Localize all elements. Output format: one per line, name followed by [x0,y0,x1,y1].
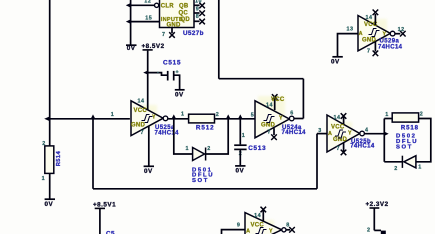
power +8.5V1 [93,202,116,209]
wire U527b QB pin 10 [194,4,200,6]
no-connect X U524b output [289,227,295,233]
svg-text:4: 4 [365,128,369,134]
svg-text:14: 14 [334,115,341,121]
label U525b [350,139,375,150]
node junction arrow C513 tap [238,114,243,119]
wire U527b GND pin 7 [171,28,173,34]
wire C515 left [148,73,167,76]
capacitor C515 [157,70,179,81]
svg-text:GND: GND [131,123,146,129]
wire +2.3V2 down [373,209,375,231]
inverter U524b bottom partial [245,213,286,240]
svg-text:3: 3 [318,128,322,134]
ground 0V under R514 [45,199,56,208]
svg-text:0V: 0V [236,168,245,175]
no-connect X U525b GND [341,150,347,156]
node junction arrow bottom branch [91,114,96,119]
svg-text:2: 2 [420,111,424,117]
svg-text:1: 1 [418,164,422,170]
svg-text:74HC14: 74HC14 [350,144,375,150]
node junction arrow C515 tap [143,70,148,74]
wire R518 vertical left [383,119,385,162]
inverter U525a [131,101,168,136]
svg-text:9: 9 [196,7,200,13]
svg-text:14: 14 [266,102,273,108]
power +2.3V2 [366,201,389,208]
svg-text:2: 2 [367,228,371,234]
wire U525a GND pin 7 [148,126,150,166]
svg-text:Y: Y [279,116,283,122]
wire D502 left [384,161,402,163]
svg-text:+2.3V2: +2.3V2 [366,201,389,208]
svg-text:1: 1 [42,176,46,182]
wire R512 to U524a input [215,118,256,120]
svg-text:A: A [246,228,250,234]
inverter U529a [358,16,395,51]
svg-text:Y: Y [269,228,273,234]
no-connect X U524a GND [271,134,277,140]
svg-text:14: 14 [254,213,261,219]
no-connect X U529a output [400,31,406,37]
wire U524b output [286,229,290,231]
svg-text:0V: 0V [175,91,184,98]
svg-text:+8.5V2: +8.5V2 [142,43,165,50]
svg-text:VCC: VCC [134,108,148,114]
node junction arrow D501 right [226,114,231,119]
svg-text:13: 13 [347,26,354,32]
svg-text:8: 8 [286,222,290,228]
node junction arrow main wire [44,116,50,121]
node junction arrow pin15 [126,19,131,24]
svg-text:GND: GND [261,122,276,128]
wire U529a GND stub [374,41,376,51]
power +8.5V2 [142,43,165,50]
svg-text:1: 1 [186,146,190,152]
wire U527b INPUTB pin 15 [131,21,160,23]
no-connect X U529a GND [373,51,379,57]
wire U524b VCC stub [262,211,264,222]
svg-text:0V: 0V [45,201,54,208]
svg-text:Y: Y [383,31,387,37]
node junction arrow R518 tap [384,132,389,136]
svg-text:7: 7 [337,146,341,152]
wire U529a VCC stub [374,14,376,25]
svg-text:5: 5 [251,113,255,119]
resistor R514 [45,146,62,174]
svg-text:A: A [328,131,332,137]
wire U524a output [294,118,303,120]
wire bus left U527b [130,0,132,45]
capacitor C513 [234,145,246,149]
wire U525b VCC stub [343,116,345,125]
ground 0V under U525a [144,166,154,175]
svg-text:0V: 0V [331,59,340,66]
wire U524a VCC stub [274,98,276,111]
svg-text:CLR: CLR [161,3,174,9]
svg-text:0V: 0V [127,45,136,52]
no-connect X pin 9 [199,10,205,16]
svg-text:R514: R514 [56,150,62,166]
svg-text:10: 10 [195,0,202,5]
wire main horizontal to U525a input [50,118,130,120]
svg-text:Y: Y [152,114,156,120]
wire top feedback vertical [218,0,220,79]
svg-text:1: 1 [242,133,246,139]
svg-text:C515: C515 [163,59,181,66]
svg-text:7: 7 [162,32,166,38]
diode D502 [402,156,416,168]
wire U525b input [317,133,327,135]
wire U524a GND stub [273,128,275,135]
svg-text:2: 2 [42,141,46,147]
wire C515 right [174,75,179,89]
svg-text:14: 14 [138,98,145,104]
svg-text:R518: R518 [401,126,419,132]
svg-text:QC: QC [179,10,189,16]
svg-text:A: A [359,31,363,37]
svg-text:U527b: U527b [183,30,204,37]
svg-text:14: 14 [366,15,373,21]
wire R514 bottom [49,173,51,198]
svg-text:7: 7 [141,130,145,136]
inverter U525b [327,115,364,152]
svg-text:2: 2 [216,112,220,118]
diode D501 [193,148,206,161]
wire D501 left drop [174,119,193,154]
wire U525b output [364,133,384,135]
wire C513 top [239,119,241,145]
node junction arrow D501 left [171,114,176,119]
wire U529a output [395,33,400,35]
label D502 [396,134,418,151]
wire U524b input pin 9 [222,230,246,234]
wire to resistor bottom right [374,229,381,231]
svg-text:74HC14: 74HC14 [378,44,403,50]
no-connect X U524a VCC [272,94,278,100]
wire U529a input [338,34,359,57]
label U529a [378,39,403,51]
label U525a [155,125,180,137]
resistor R518 [392,113,418,122]
svg-text:Y: Y [348,131,352,137]
halo tints [132,1,387,234]
resistor R512 [189,114,215,123]
svg-text:C5: C5 [106,231,115,235]
node junction arrow pin12 [126,3,131,8]
svg-text:7: 7 [268,130,272,136]
wire R518 right down [416,119,431,162]
no-connect X U525b VCC [341,113,347,119]
no-connect X pin 8 [199,19,205,25]
wire up to U525b input [316,134,318,189]
svg-text:7: 7 [367,49,371,55]
svg-text:2: 2 [207,146,211,152]
resistor partial bottom right [381,231,386,235]
svg-text:1: 1 [181,112,185,118]
no-connect X U524b VCC [261,207,267,213]
wire C513 bottom [239,150,241,165]
wire +8.5V2 down to U525a VCC [147,51,149,110]
svg-text:QB: QB [179,3,189,9]
svg-text:9: 9 [237,222,241,228]
svg-text:6: 6 [290,110,294,116]
label D501 [192,167,214,184]
svg-text:0V: 0V [144,168,153,175]
no-connect X pin 7 [169,32,175,38]
wire +8.5V1 down [99,209,101,234]
no-connect X pin 10 [199,3,205,9]
svg-text:SOT: SOT [396,144,413,150]
svg-text:-: - [157,70,159,76]
svg-text:VCC: VCC [331,124,345,130]
svg-text:QD: QD [181,17,191,23]
svg-text:12: 12 [398,27,405,33]
no-connect X U529a VCC [373,10,379,16]
svg-text:GND: GND [362,37,377,43]
wire left bus vertical [49,0,51,146]
IC U527b [155,0,195,28]
wire bottom horizontal [93,188,317,190]
wire feedback horizontal [219,78,304,80]
wire U525a output [168,118,189,120]
svg-text:2: 2 [394,166,398,172]
svg-text:1: 1 [385,112,389,118]
svg-text:74HC14: 74HC14 [155,130,180,136]
ground 0V under bus [126,45,137,52]
wire R518 left [384,118,392,120]
svg-text:8: 8 [196,14,200,20]
svg-text:GND: GND [167,22,182,28]
label U524a [282,125,307,136]
svg-text:+8.5V1: +8.5V1 [93,202,116,209]
wire U527b QD pin 8 [194,20,200,22]
svg-text:12: 12 [144,0,151,4]
svg-text:74HC14: 74HC14 [282,130,307,136]
svg-text:SOT: SOT [192,178,209,184]
wire U525b GND stub [343,143,345,152]
svg-text:15: 15 [145,16,152,22]
wire D501 right rise [206,119,229,154]
ground 0V under C513 [235,166,245,175]
wire U527b QC pin 9 [194,12,200,14]
wire feedback down to U524a output [302,79,304,119]
wire branch down left [92,119,94,189]
wire U527b CLR pin 12 [131,4,155,6]
inverter U524a [255,101,294,138]
ground 0V U529a input [331,57,343,66]
svg-text:1: 1 [111,112,115,118]
ground 0V under C515 [175,90,185,99]
svg-text:R512: R512 [196,125,215,132]
svg-text:C513: C513 [248,145,266,152]
